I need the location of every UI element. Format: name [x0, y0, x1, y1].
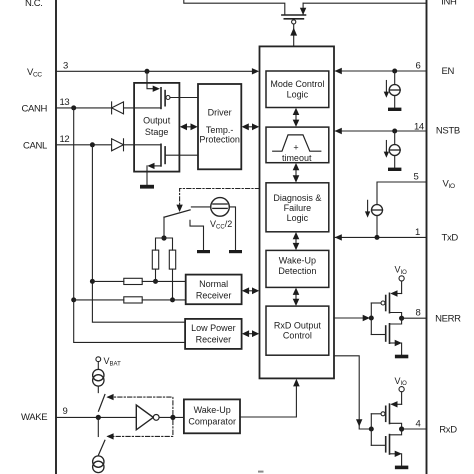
double arrow U2 to U3 — [293, 163, 300, 183]
block Driver Temp Protection — [198, 84, 241, 169]
wire comparator output to control block with up arrow — [240, 379, 300, 417]
svg-text:RxD: RxD — [439, 424, 457, 435]
node WAKE junction — [96, 415, 101, 420]
svg-text:TxD: TxD — [442, 232, 459, 243]
right IC boundary rail — [426, 0, 428, 474]
svg-text:4: 4 — [416, 419, 421, 430]
trapezoid waveform in timeout block — [273, 135, 321, 151]
wire switch lower contact to ground — [190, 220, 204, 250]
wire RxD pin line — [402, 428, 427, 430]
control block outer box — [260, 46, 335, 378]
node RxD output — [399, 426, 404, 431]
terminal VIO for NERR driver — [399, 276, 404, 281]
svg-text:13: 13 — [60, 97, 70, 108]
block Low Power Receiver — [185, 319, 242, 349]
wire EN pin line — [335, 70, 427, 72]
current source I2 on NSTB — [384, 131, 401, 168]
wire VIO terminal to Q6 source — [401, 392, 403, 405]
wire upper sense line to Normal Receiver — [92, 280, 185, 282]
block Output Stage — [134, 83, 179, 172]
ground for NERR driver — [395, 355, 408, 359]
wire RxD control from control block down to driver — [334, 356, 371, 429]
wire EN arrow into control block — [335, 68, 342, 74]
wire inverter output to comparator — [159, 416, 184, 418]
double arrow U4 to U5 — [293, 288, 300, 306]
ground for VCC/2 source — [229, 250, 242, 253]
wire VIO pin line — [377, 182, 427, 205]
wire VCC pin line — [56, 70, 257, 72]
block U1 Mode Control Logic — [266, 71, 329, 108]
svg-text:N.C.: N.C. — [25, 0, 43, 9]
wire NERR pin line — [402, 317, 427, 319]
wire Q1 gate from control block with up arrow — [290, 24, 297, 46]
double arrow Normal Receiver to control block — [242, 287, 259, 294]
wire NERR control from RxD Output Control — [334, 315, 370, 321]
block U4 Wake-Up Detection — [266, 250, 329, 287]
svg-text:1: 1 — [415, 227, 420, 238]
terminal VBAT — [96, 357, 101, 362]
ground for switch contact — [197, 250, 210, 253]
wire VBAT to wake current source — [97, 362, 99, 370]
svg-text:CANH: CANH — [22, 104, 48, 115]
svg-text:9: 9 — [63, 406, 68, 417]
wire CANL pin line — [56, 144, 161, 146]
wire VCC/2 right terminal to ground — [229, 207, 235, 250]
svg-text:+: + — [293, 143, 298, 153]
svg-text:NormalReceiver: NormalReceiver — [196, 279, 232, 301]
ground for output stage — [140, 185, 154, 189]
wire R1 bottom to CANL sense line — [155, 269, 157, 281]
dash-dot wake control frame — [106, 394, 172, 440]
left IC boundary rail — [55, 0, 57, 474]
double arrow Low Power Receiver to control block — [242, 330, 259, 337]
node VCC junction — [145, 69, 150, 74]
current source I3 VIO pull-up to TxD — [365, 200, 383, 237]
wire WAKE pin line — [56, 416, 136, 418]
svg-text:12: 12 — [60, 134, 70, 145]
wire CANH pin line — [56, 107, 161, 109]
svg-text:Wake-UpDetection: Wake-UpDetection — [278, 256, 316, 277]
ground for I2 — [388, 168, 401, 171]
node CANL vertical to upper sense line — [90, 279, 95, 284]
node bias center — [161, 235, 166, 240]
resistor R2 bias right — [169, 250, 175, 269]
wire NSTB arrow into control block — [335, 128, 342, 134]
wire NERR gate bus — [370, 303, 372, 335]
node NERR output — [399, 316, 404, 321]
diode D1 on CANH — [112, 102, 124, 114]
transistor Q5 NERR NMOS — [371, 318, 402, 355]
node NERR gate bus input — [369, 316, 374, 321]
transistor Q2 high-side output — [147, 71, 198, 108]
svg-text:6: 6 — [416, 61, 421, 72]
node inverter output — [170, 415, 175, 420]
double arrow U1 to U2 — [293, 108, 300, 127]
svg-text:OutputStage: OutputStage — [143, 116, 171, 138]
svg-text:NERR: NERR — [435, 314, 461, 325]
wire INH pin line — [303, 2, 426, 4]
current source I5 wake pull-down — [93, 456, 104, 473]
switch S1 bias selector blade — [164, 210, 190, 217]
wire Q1 drain to INH line with down arrow — [300, 3, 306, 15]
block Normal Receiver — [186, 275, 242, 305]
svg-text:NSTB: NSTB — [436, 126, 460, 137]
svg-text:EN: EN — [442, 66, 455, 77]
node CANH junction — [71, 105, 76, 110]
resistor R4 lower sense — [124, 297, 142, 303]
dash-dot control line to bias switch — [176, 189, 259, 213]
resistor R1 bias left — [152, 250, 158, 269]
current source I1 on EN — [384, 71, 401, 108]
wire RxD gate bus — [370, 414, 372, 446]
cropped caption fragment at bottom — [258, 471, 264, 473]
wire VIO terminal to Q4 source — [401, 281, 403, 294]
transistor Q3 low-side output — [147, 144, 198, 185]
node CANL junction — [90, 142, 95, 147]
svg-text:Low PowerReceiver: Low PowerReceiver — [191, 323, 236, 345]
transistor Q7 RxD NMOS — [371, 429, 402, 466]
node R2 to sense line — [170, 297, 175, 302]
node CANH vertical to lower sense line — [71, 297, 76, 302]
wire TxD arrow into control block — [335, 234, 342, 240]
wire bias node to right bias resistor — [164, 238, 173, 250]
wire switch common to bias node — [163, 217, 165, 238]
node TxD junction — [375, 235, 380, 240]
voltage source VCC/2 — [211, 198, 230, 217]
block U3 Diagnosis and Failure Logic — [266, 183, 329, 232]
wire CANL vertical sense drop — [92, 145, 185, 322]
block U2 timeout slope control — [266, 127, 329, 163]
wire WAKE node to lower switch contact — [97, 417, 99, 436]
node RxD gate bus input — [369, 427, 374, 432]
svg-text:Wake-UpComparator: Wake-UpComparator — [188, 405, 236, 427]
node NSTB junction — [392, 129, 397, 134]
node EN junction — [392, 69, 397, 74]
switch S2 wake upper — [99, 395, 105, 412]
svg-text:CANL: CANL — [23, 140, 47, 151]
svg-text:8: 8 — [416, 308, 421, 319]
inverter U6 wake buffer — [136, 405, 159, 430]
terminal VIO for RxD driver — [399, 387, 404, 392]
svg-text:3: 3 — [63, 61, 68, 72]
double arrow Output Stage to Driver — [180, 123, 198, 130]
wire I4 to switch S2 contact — [97, 386, 99, 393]
transistor Q4 NERR PMOS — [371, 290, 401, 318]
double arrow U3 to U4 — [293, 232, 300, 250]
wire lower sense line to Normal Receiver — [74, 299, 186, 301]
wire VCC arrow into control block — [252, 68, 259, 74]
ground for I1 — [388, 108, 401, 111]
ground for RxD driver — [395, 466, 408, 470]
diode D2 on CANL — [112, 139, 124, 151]
wire TxD pin line — [335, 236, 427, 238]
resistor R3 upper sense — [124, 278, 142, 284]
wire INH transistor source feed from top edge — [184, 0, 285, 15]
block U5 RxD Output Control — [266, 306, 329, 355]
current source I4 wake pull-up — [93, 369, 104, 386]
svg-text:timeout: timeout — [282, 153, 312, 163]
svg-text:14: 14 — [414, 122, 424, 133]
double arrow Driver to control block — [242, 123, 260, 130]
wire R2 bottom to CANH sense line — [172, 269, 174, 300]
wire NSTB pin line — [335, 130, 427, 132]
wire CANH vertical sense drop — [74, 108, 185, 343]
node R1 to sense line — [153, 279, 158, 284]
svg-text:5: 5 — [414, 171, 419, 182]
wire bias node to left bias resistor — [156, 238, 165, 250]
block Wake-Up Comparator — [184, 399, 240, 433]
transistor Q1 INH high-side switch — [282, 15, 306, 24]
svg-text:INH: INH — [441, 0, 457, 8]
wire VCC/2 left terminal to switch contact — [191, 206, 210, 208]
svg-text:WAKE: WAKE — [21, 412, 47, 423]
transistor Q6 RxD PMOS — [371, 401, 401, 429]
switch S3 wake lower — [99, 440, 105, 455]
